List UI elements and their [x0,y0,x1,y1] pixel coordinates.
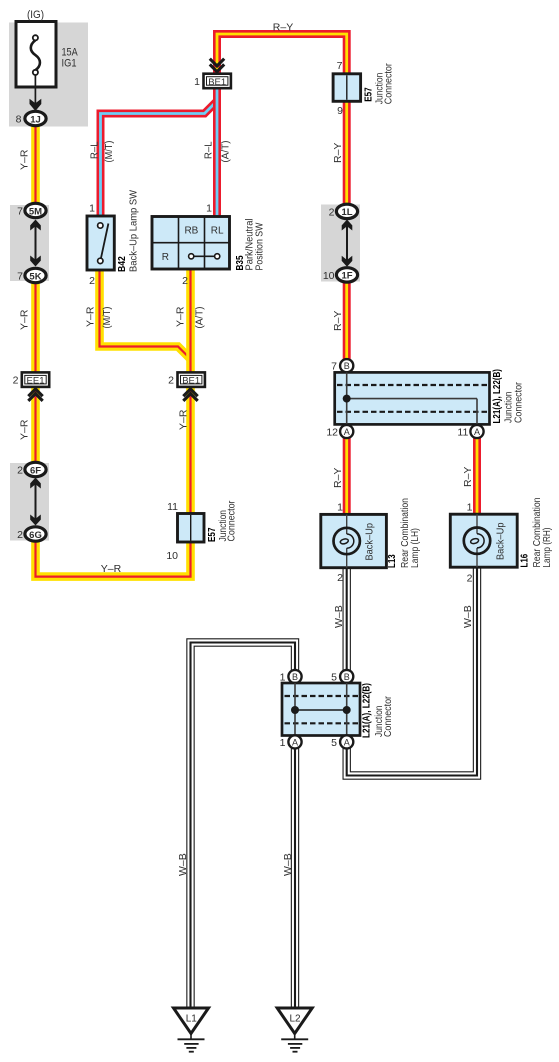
node A pin 5 lower [340,735,353,748]
svg-text:B: B [344,672,350,682]
arrow 6F to 6G [30,478,41,526]
svg-text:R–Y: R–Y [332,468,344,488]
svg-text:R–L: R–L [203,141,215,159]
label Rear Combination Lamp (RH) [531,497,553,567]
label Y-R above E57 left [178,409,190,430]
svg-text:W–B: W–B [462,605,474,628]
label B42 ref [116,256,128,272]
svg-text:7: 7 [17,271,23,283]
svg-text:2: 2 [17,529,23,541]
svg-text:Y–R: Y–R [19,309,31,330]
connector 5K [25,268,46,282]
svg-text:Back–Up Lamp SW: Back–Up Lamp SW [128,190,140,272]
junction connector L21(A) L22(B) upper [335,372,490,424]
label W-B right vertical [282,853,294,876]
shield gray box 6F/6G [10,463,49,541]
svg-text:E57: E57 [206,527,218,542]
pin 1 label B35 [206,203,212,215]
svg-text:7: 7 [17,206,23,218]
chevron below EE1 [28,389,42,401]
pin 5 label lower B [331,672,337,684]
svg-text:8: 8 [16,114,22,126]
label Y-R upper left [19,149,31,170]
lamp L13 Back-Up [321,514,387,567]
pin 1 label B42 [89,203,95,215]
pin 2 label B35 [182,275,188,287]
pin 2 label L16 [467,573,473,585]
pin 2 label BE1 lower [168,375,174,387]
label Y-R bottom horizontal [101,563,122,575]
connector 1L [336,204,357,218]
svg-text:BE1: BE1 [208,77,226,88]
pin 7 label 5M [17,206,23,218]
label Junction Connector E57 left [218,500,238,542]
svg-text:Lamp (RH): Lamp (RH) [541,528,553,568]
label (IG) [27,9,44,21]
label Rear Combination Lamp (LH) [399,498,421,568]
svg-text:2: 2 [182,275,188,287]
node B pin 1 lower [288,670,301,683]
pin 9 label E57 right [337,105,343,117]
svg-text:Y–R: Y–R [175,306,187,327]
svg-text:2: 2 [13,375,19,387]
pin 1 label lower B [280,672,286,684]
wire R-L (A/T) BE1 to B35 [213,87,221,218]
switch B42 Back-Up Lamp SW [87,216,114,270]
svg-text:5M: 5M [29,206,42,217]
node A pin 11 [470,425,483,438]
svg-text:L16: L16 [519,554,531,568]
svg-text:Y–R: Y–R [19,149,31,170]
lamp L16 Back-Up [450,514,517,567]
svg-text:1L: 1L [341,207,352,218]
svg-text:7: 7 [337,60,343,72]
svg-text:Connector: Connector [384,63,395,105]
svg-text:1: 1 [206,203,212,215]
svg-text:(A/T): (A/T) [194,307,206,329]
wire R-L (M/T) branch to B42 [101,101,218,218]
svg-text:1: 1 [280,737,286,749]
connector BE1 upper [204,74,231,89]
value label 15A IG1 [62,47,79,70]
svg-text:Position SW: Position SW [254,222,266,270]
pin 2 label 6F [17,465,23,477]
svg-text:(A/T): (A/T) [220,141,232,163]
label R-Y to L13 [332,468,344,488]
node A pin 1 lower [288,735,301,748]
svg-text:Back–Up: Back–Up [364,523,376,561]
svg-text:2: 2 [168,375,174,387]
label E57 right ref [363,87,375,102]
junction connector L21(A) L22(B) lower [282,683,360,736]
wire Y-R (M/T) B42 to BE1 [100,268,191,359]
svg-text:1: 1 [337,502,343,514]
svg-text:9: 9 [337,105,343,117]
svg-text:IG1: IG1 [62,58,77,70]
label Y-R (A/T) [175,306,206,328]
label Junction Connector lower [374,695,394,737]
wire Y-R (A/T) B35 to BE1 [186,268,195,373]
wire W-B L13 to pin 5B [343,567,351,682]
svg-text:11: 11 [167,501,178,513]
pin 11 label [457,427,468,439]
svg-text:Connector: Connector [227,500,238,542]
label Junction Connector upper [504,381,525,423]
pin 10 label E57 [166,550,178,562]
switch B35 Park/Neutral Position SW [152,217,230,270]
svg-text:B: B [292,672,298,682]
svg-text:1F: 1F [341,271,352,282]
shield gray box fuse area [9,23,88,127]
svg-text:(M/T): (M/T) [103,141,115,163]
svg-text:5K: 5K [29,271,41,282]
connector 5M [25,203,46,217]
label R-Y top [273,22,293,34]
wire R-Y BE1 to E57 to 1L [217,34,347,205]
svg-text:2: 2 [329,207,335,219]
svg-text:EE1: EE1 [27,376,45,387]
junction connector E57 right [333,74,361,102]
svg-text:7: 7 [331,361,337,373]
svg-text:1: 1 [467,502,473,514]
pin 10 label 1F [323,270,335,282]
svg-text:Y–R: Y–R [101,563,122,575]
label W-B left vertical [177,853,189,876]
svg-text:R–L: R–L [89,141,101,159]
pin 2 label 6G [17,529,23,541]
svg-text:B: B [344,361,350,371]
svg-text:(IG): (IG) [27,9,44,21]
pin 2 label B42 [89,275,95,287]
svg-text:R–Y: R–Y [273,22,293,34]
wire R-Y pin 12A to L13 [343,423,351,516]
wire R-Y 1F to junction pin B [343,280,351,373]
svg-text:E57: E57 [363,87,375,102]
svg-text:B42: B42 [116,256,128,272]
connector 1J [25,111,46,125]
svg-text:10: 10 [323,270,335,282]
svg-text:6G: 6G [29,530,42,541]
label L21(A) L22(B) upper ref [491,369,503,424]
svg-text:W–B: W–B [282,853,294,876]
arrow 1L to 1F [342,220,353,267]
svg-text:R: R [162,252,169,263]
svg-text:1: 1 [89,203,95,215]
pin 2 label 1L [329,207,335,219]
wire Y-R 1J to 5M [31,126,40,204]
label Y-R mid left [19,309,31,330]
pin 12 label [326,427,338,439]
svg-text:A: A [344,737,350,747]
svg-text:2: 2 [17,465,23,477]
svg-text:Y–R: Y–R [19,419,31,440]
svg-text:Y–R: Y–R [85,306,97,327]
svg-text:12: 12 [326,427,338,439]
svg-text:Y–R: Y–R [178,409,190,430]
pin 11 label E57 [167,501,178,513]
label Y-R (M/T) [85,306,114,328]
svg-text:W–B: W–B [177,853,189,876]
pin 1 label BE1 upper [194,76,200,88]
ground L2 [277,1008,312,1052]
wire Y-R EE1 to 6F [31,388,40,465]
svg-text:R–Y: R–Y [462,467,474,487]
svg-text:11: 11 [457,427,468,439]
label Junction Connector E57 right [375,63,395,105]
pin 1 label lower A [280,737,286,749]
arrow 5M to 5K [30,220,41,267]
chevron below BE1 lower [183,389,197,401]
svg-text:R–Y: R–Y [332,311,344,331]
svg-text:2: 2 [337,572,343,584]
label Back-Up Lamp SW [128,190,140,272]
connector EE1 [22,372,49,387]
svg-text:6F: 6F [30,465,41,476]
label W-B below L13 [333,605,345,628]
shield gray box 1L/1F [321,205,360,282]
svg-text:A: A [292,737,298,747]
svg-text:W–B: W–B [333,605,345,628]
label R-Y to L16 [462,467,474,487]
ground L1 [174,1008,209,1052]
label Park/Neutral Position SW [244,219,266,271]
label B35 ref [234,255,246,270]
svg-text:10: 10 [166,550,178,562]
pin 7 label E57 right [337,60,343,72]
svg-text:L1: L1 [186,1014,198,1025]
label R-Y upper right [332,143,344,163]
node A pin 12 [340,425,353,438]
svg-text:Back–Up: Back–Up [495,522,507,560]
connector BE1 lower [178,372,205,387]
label E57 left ref [206,527,218,542]
pin 7 label node B [331,361,337,373]
shield gray box 5M/5K [10,205,49,281]
svg-text:L2: L2 [289,1014,301,1025]
pin 7 label 5K [17,271,23,283]
label R-Y mid right [332,311,344,331]
svg-text:RL: RL [211,226,224,237]
pin 1 label L16 [467,502,473,514]
pin 5 label lower A [331,737,337,749]
svg-text:A: A [474,427,480,437]
wire W-B pin 1B to ground L1 [191,643,296,1009]
svg-text:2: 2 [467,573,473,585]
fuse 15A IG1 [16,22,56,88]
svg-text:1: 1 [194,76,200,88]
pin 1 label L13 [337,502,343,514]
label L13 ref [386,554,398,568]
pin 8 label [16,114,22,126]
pin 2 label L13 [337,572,343,584]
label Y-R lower left [19,419,31,440]
wire W-B pin 1A to ground L2 [291,738,299,1008]
svg-text:R–Y: R–Y [332,143,344,163]
svg-text:L21(A), L22(B): L21(A), L22(B) [491,369,503,424]
svg-text:BE1: BE1 [182,376,200,387]
label R-L (A/T) [203,141,232,163]
wire W-B L16 to pin 5A [347,566,477,776]
wire Y-R 5K to EE1 [31,282,40,373]
svg-text:RB: RB [184,226,198,237]
node B pin 7 [340,359,353,372]
label L21(A) L22(B) lower ref [361,683,373,738]
pin 2 label EE1 [13,375,19,387]
svg-text:2: 2 [89,275,95,287]
svg-text:5: 5 [331,737,337,749]
svg-text:A: A [344,427,350,437]
label W-B below L16 [462,605,474,628]
svg-text:Connector: Connector [514,381,525,423]
svg-text:(M/T): (M/T) [101,307,113,329]
junction connector E57 left [178,514,205,543]
wire Y-R 6G to E57 to BE1 [36,388,191,577]
node B pin 5 lower [340,670,353,683]
connector 1F [336,268,357,282]
wire R-Y pin 11A to L16 [473,423,481,516]
svg-text:Lamp (LH): Lamp (LH) [409,528,421,568]
svg-text:1J: 1J [30,114,41,125]
connector 6G [25,527,46,541]
chevron above BE1 upper [210,59,224,72]
label R-L (M/T) [89,141,116,163]
label L16 ref [519,554,531,568]
svg-text:L13: L13 [386,554,398,568]
svg-text:Connector: Connector [383,695,394,737]
arrow from fuse to 1J [30,75,42,111]
connector 6F [25,462,46,476]
svg-text:L21(A), L22(B): L21(A), L22(B) [361,683,373,738]
